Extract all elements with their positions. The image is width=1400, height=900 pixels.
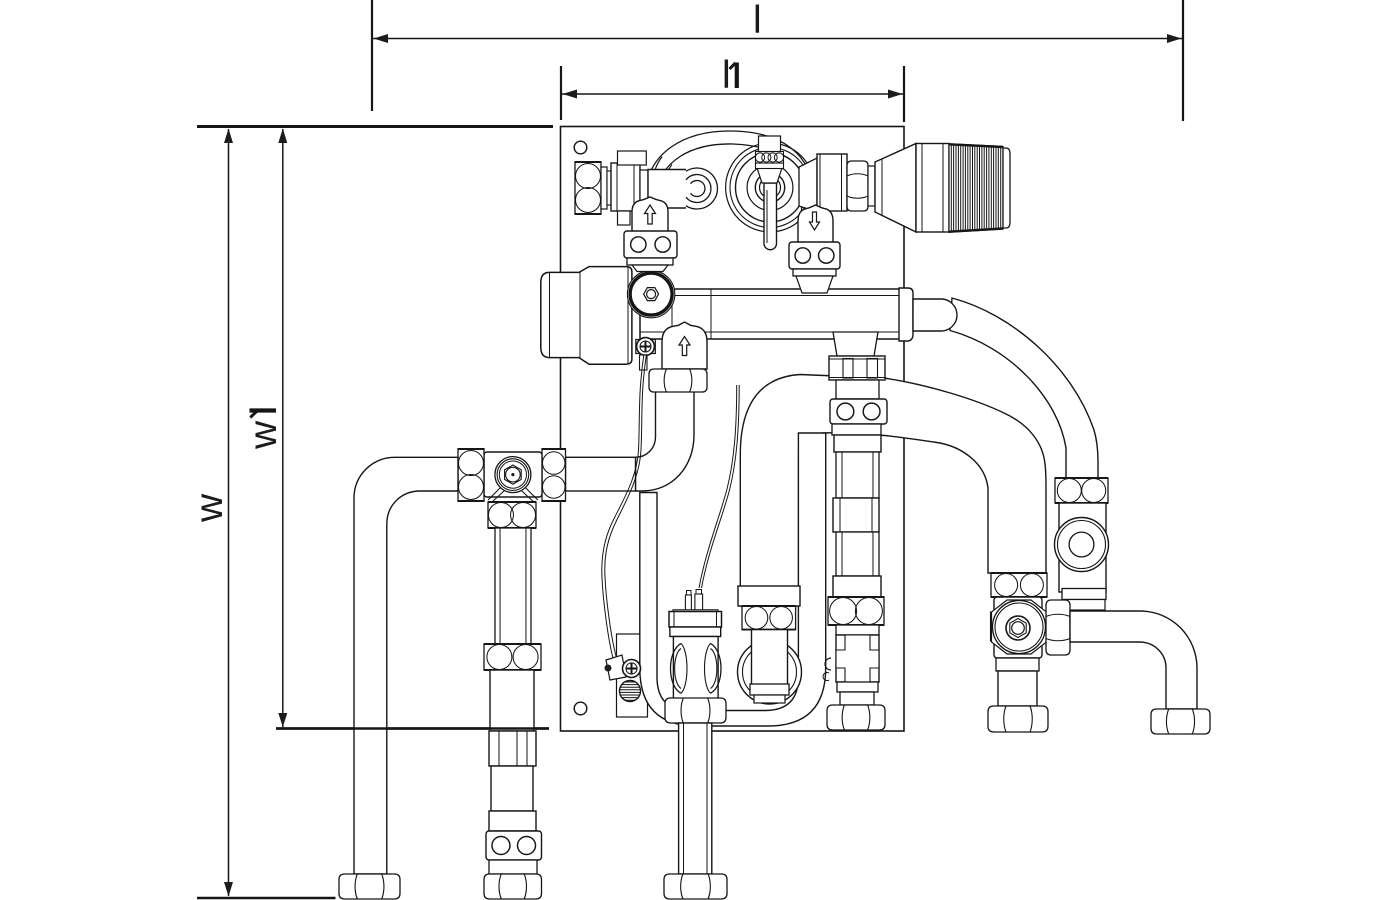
supply flange with bolts [624,231,677,258]
coil u-turn middle arc [686,175,711,203]
dimension l1 arrow right [888,90,903,99]
sensor flange [669,612,722,628]
coil u-turn inner arc [691,180,705,196]
dimension l1 arrow left [563,90,578,99]
cross fitting down tube [495,528,531,644]
dimension l extension line right [1182,0,1184,121]
cross fitting bottom hex [488,502,536,528]
pipe to right isolation valve [950,298,1098,478]
dimension l extension line left [371,0,373,111]
svg-text:l: l [753,0,762,42]
center outlet pipe [679,723,712,874]
mounting panel backplate [561,127,905,732]
dimension l1 label [722,54,737,97]
column bottom hex nut [827,705,885,730]
supply flange band [627,258,673,265]
column lower neck [837,682,878,705]
center outlet hex nut [664,874,727,899]
u-bend pipe [640,433,826,726]
right isolation valve base band [1062,589,1106,611]
column hex nut [828,597,884,625]
dimension w1 arrow bottom [278,713,287,727]
inlet union top block [618,151,647,165]
return flange band [793,269,836,276]
pump rotor rings [627,270,674,317]
outlet union body [817,154,847,211]
svg-text:w: w [242,420,285,450]
hex nut right of cross fitting [542,449,567,501]
lower flange with bolts [486,831,542,860]
inlet union bottom block [618,211,631,225]
tube below union [491,766,533,811]
bottom extension line for w [197,897,336,900]
ball valve stem flange [756,163,784,169]
sensor bracket plate [617,634,648,717]
svg-text:w: w [188,493,231,523]
column lower band [833,576,881,597]
return valve arrow [810,212,820,230]
inlet hex nut [575,162,602,214]
coil loop second arc [656,144,802,229]
column cone under manifold [833,332,878,356]
second well collar [738,586,800,606]
inlet washers [601,167,611,209]
dimension w1 label [242,411,285,451]
right-angle valve body [991,597,1043,658]
clamp screw [623,660,641,678]
outlet hex nut [847,161,868,211]
supply flange cone [632,265,668,272]
bottom right hex nut [1151,709,1210,734]
outlet connector [799,158,817,212]
return flange with bolts [789,242,840,269]
drain cap struts [488,488,538,503]
mounting hole top left [574,141,587,154]
check valve upper shield [662,322,707,369]
column lower tube [836,532,879,576]
column slotted nut [829,356,885,380]
column wide band [834,435,881,452]
column valve block [836,635,879,682]
second well tube [752,630,788,688]
ball valve handle [764,183,777,250]
mounting hole bottom left [574,702,587,715]
knob body [916,144,949,233]
coil u-turn outer arc [686,168,717,209]
column flange with bolts [830,399,887,424]
knob cone [875,144,916,233]
capillary clamp [605,655,627,680]
manifold pipe [640,289,910,339]
dimension w label [188,493,231,523]
dimension l line [373,38,1182,40]
lower tube to panel edge [490,670,534,731]
right isolation valve rings [1055,518,1109,572]
coil loop outer arc [645,131,813,234]
sensor collar [670,627,721,637]
dimension l1 line [562,93,903,95]
pump center hub [644,288,659,301]
pump body [541,267,632,365]
supply valve arrow [645,205,656,224]
right-angle valve lower tube [998,671,1037,706]
column square union [833,498,879,532]
w1 extension line overdraw [276,727,549,729]
horizontal pipe run [566,457,636,491]
dimension w arrow bottom [224,882,233,897]
check valve union hex [649,369,707,392]
second well bottom plate [750,684,789,703]
sensor right lens [705,643,722,693]
left standpipe bottom hex nut [339,874,400,899]
lower neck band [489,860,537,874]
union hex pair [484,644,541,670]
right-angle valve rings [992,600,1047,654]
column upper stem [836,380,879,399]
sensor top plate [673,610,718,613]
drain cap rings [495,457,531,493]
second well boss rings [738,640,802,704]
dimension w1 line [282,129,284,727]
capillary tube right [699,385,739,588]
band below tube [489,811,536,831]
bottom extension line for w1 [276,727,549,729]
ball valve top block [759,136,781,152]
cross fitting body [484,452,542,497]
sensor left lens [671,643,688,693]
top extension line for w and w1 [197,125,553,128]
right-angle valve outlet nut [1046,600,1070,655]
dimension l label [753,0,762,42]
pump bleed screw [636,338,656,370]
ball valve stem cone [757,168,782,183]
sensor body tube [673,637,718,699]
supply valve shield [632,197,668,232]
return valve shield [798,205,833,243]
union nut of right riser [1055,478,1108,503]
ball valve center rings [755,173,784,202]
dimension l arrow left [374,34,389,43]
column upper band [832,424,881,435]
inlet washer 2 [640,170,648,206]
check valve upper arrow [679,337,690,356]
coil loop left arcs [653,157,677,218]
sensor well hex nut [665,698,726,723]
union nut above right-angle valve [991,573,1047,597]
svg-text:l: l [722,54,731,97]
right isolation valve body [1059,503,1106,592]
clamp knurled knob [620,681,641,702]
ball valve castellated ring [755,152,783,164]
knob end cap [1003,148,1010,228]
outlet washer [868,166,875,206]
dimension w line [228,129,230,896]
dimension l1 extension line right [903,66,905,122]
cross fitting left hex nut [458,449,485,501]
dimension l arrow right [1167,34,1182,43]
left elbow and standpipe [354,457,458,874]
column neck band [836,625,879,635]
inlet union body [611,163,640,211]
dimension w1 arrow top [278,129,287,144]
return bend pipe to right valve [740,375,1046,607]
right-angle valve bottom hex nut [988,706,1048,732]
return valve neck [801,231,831,243]
column valve clip [823,658,831,680]
ball valve body rings [736,153,805,222]
second well union nut [742,606,796,630]
return flange cone [796,276,833,293]
left middle bottom hex nut [484,874,542,899]
elbow below check valve [636,391,695,491]
sensor pins [685,590,702,612]
manifold end cap [913,299,957,331]
dimension l1 extension line left [560,66,562,120]
outlet elbow pipe to bottom right [1070,611,1197,709]
right-angle valve lower band [996,658,1039,671]
dimension w arrow top [224,129,233,144]
manifold end flange [899,288,918,341]
capillary tube left [602,354,647,660]
knob knurled grip [949,144,1003,232]
column upper tube [836,452,879,498]
coil wrap arc around ball valve [726,143,815,232]
inlet pipe stub [648,170,686,209]
union block below panel [489,731,536,766]
